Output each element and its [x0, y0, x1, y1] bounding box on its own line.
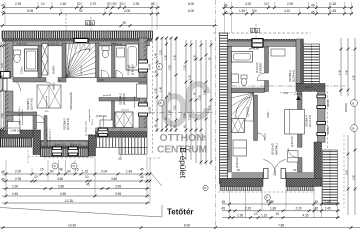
- overall top dim line: [0, 25, 218, 27]
- svg-text:2.90: 2.90: [12, 184, 18, 188]
- double door leaves B: [264, 169, 269, 179]
- window A bottom 2: [68, 144, 78, 157]
- svg-text:R: R: [73, 164, 75, 168]
- svg-text:1.95: 1.95: [203, 135, 206, 140]
- svg-text:90: 90: [123, 21, 127, 25]
- svg-text:(5.04 m2): (5.04 m2): [256, 62, 259, 73]
- sink B: [232, 74, 239, 83]
- R circles below A doors: [52, 163, 58, 169]
- svg-text:3.10: 3.10: [173, 105, 176, 110]
- toilet B: [241, 75, 247, 79]
- section mark 8|8 over B: [251, 24, 260, 39]
- svg-text:6.00: 6.00: [188, 9, 194, 13]
- svg-text:OTTHON: OTTHON: [160, 133, 204, 144]
- svg-text:1.48: 1.48: [159, 87, 162, 92]
- dashed lines below B: [218, 191, 315, 193]
- dim line B row2: [222, 13, 353, 15]
- svg-text:8: 8: [251, 29, 253, 33]
- svg-text:2.03 m: 2.03 m: [21, 66, 24, 74]
- svg-text:1.45: 1.45: [325, 200, 331, 204]
- mid-right vertical wall A: [89, 135, 96, 156]
- dashed overhang right of wing: [327, 91, 329, 149]
- svg-text:10: 10: [41, 2, 45, 6]
- bottom-mid wall A: [41, 141, 89, 149]
- svg-text:-11.35-: -11.35-: [64, 199, 74, 203]
- svg-text:SZOBA 3: SZOBA 3: [288, 70, 292, 82]
- svg-text:(12.84 m2): (12.84 m2): [293, 70, 296, 82]
- stairs bottom right B: [323, 150, 338, 205]
- svg-text:2.35: 2.35: [133, 2, 139, 6]
- svg-text:Tetőtér: Tetőtér: [167, 208, 194, 217]
- corner dashes bottom-left A: [27, 150, 29, 163]
- door arc A szoba1: [37, 115, 45, 123]
- svg-text:5.05: 5.05: [27, 9, 33, 13]
- bed A szoba2: [137, 84, 148, 98]
- svg-text:1.50: 1.50: [239, 9, 245, 13]
- leader diagonal bottom-right of A rows: [150, 172, 162, 186]
- svg-text:2.04: 2.04: [101, 170, 107, 174]
- svg-text:melegburkolat: melegburkolat: [88, 109, 91, 122]
- top wall B gray: [228, 42, 297, 46]
- svg-text:SZOBA 2: SZOBA 2: [119, 93, 123, 105]
- svg-text:3.80: 3.80: [58, 184, 64, 188]
- svg-text:90: 90: [67, 170, 71, 174]
- svg-text:180/150: 180/150: [345, 102, 348, 112]
- cabinet B: [288, 151, 299, 163]
- svg-text:(11.16 m2): (11.16 m2): [123, 93, 126, 105]
- svg-text:45: 45: [1, 177, 5, 181]
- svg-text:45: 45: [86, 183, 90, 187]
- ridge dash-dot B: [232, 85, 345, 87]
- svg-text:45: 45: [1, 11, 5, 15]
- svg-text:B: B: [158, 65, 160, 69]
- dashed line right of A: [152, 33, 154, 153]
- stairs A flight2: [119, 148, 147, 155]
- svg-text:SZOBA 4: SZOBA 4: [305, 115, 309, 127]
- step wall A: [33, 130, 41, 155]
- door arc A fürdő: [116, 71, 123, 78]
- window A right 1: [138, 60, 147, 63]
- svg-text:10: 10: [264, 2, 268, 6]
- wardrobe A bottom-left room: [8, 122, 21, 135]
- bath fixtures A top-left: shower: [25, 49, 38, 71]
- svg-text:5.35: 5.35: [198, 95, 201, 100]
- svg-text:3.30: 3.30: [183, 65, 186, 70]
- sink A fürdő: [117, 48, 125, 57]
- wardrobe B bottom-left: [233, 140, 247, 156]
- bottom-left wall A: [0, 130, 34, 138]
- svg-text:8: 8: [91, 21, 93, 25]
- top wall A gray: [5, 42, 150, 46]
- shaft X chimney A: [42, 44, 49, 76]
- svg-text:(16.95 m2): (16.95 m2): [272, 143, 275, 155]
- svg-text:45: 45: [222, 200, 226, 204]
- svg-text:B: B: [352, 126, 354, 130]
- svg-text:R: R: [54, 164, 56, 168]
- wardrobe B top-right room: [271, 49, 285, 56]
- chimney A: [74, 38, 88, 46]
- tub B: [232, 52, 253, 63]
- svg-text:10: 10: [34, 175, 38, 179]
- door arc A gard: [46, 82, 54, 90]
- svg-text:R: R: [204, 186, 206, 190]
- circle marker left of B: [203, 185, 208, 190]
- svg-text:(1.88 m2): (1.88 m2): [11, 130, 22, 133]
- interior walls A: [5, 43, 147, 146]
- svg-text:3.80: 3.80: [111, 177, 117, 181]
- svg-text:3.60: 3.60: [1, 113, 4, 118]
- svg-text:(1.44m2): (1.44m2): [112, 43, 122, 46]
- dim line B row1: [222, 7, 353, 9]
- svg-text:2.18: 2.18: [188, 115, 191, 120]
- svg-text:2.00: 2.00: [283, 92, 288, 95]
- svg-text:hidegburkolat: hidegburkolat: [45, 96, 48, 108]
- section mark 8|8 over A: [86, 17, 95, 30]
- left wall ladder B: [220, 33, 228, 184]
- toilet A wc room: [102, 46, 109, 51]
- extra tiny texts A corridor: [45, 66, 130, 135]
- svg-text:1.90: 1.90: [154, 88, 157, 93]
- svg-text:(1.88 m2): (1.88 m2): [16, 42, 27, 45]
- svg-text:3.95: 3.95: [115, 192, 121, 196]
- bottom wall B gray: [232, 172, 315, 178]
- toilet A top-left: [14, 50, 21, 55]
- door mark 2.00 dashes B: [280, 91, 298, 93]
- left wall A: [5, 41, 13, 77]
- svg-text:+15,32: +15,32: [294, 93, 302, 96]
- frame fold lines: [0, 205, 162, 217]
- eaves band A: [2, 31, 153, 39]
- svg-text:90: 90: [113, 2, 117, 6]
- svg-text:1.80: 1.80: [270, 207, 276, 211]
- svg-text:1.46: 1.46: [126, 170, 132, 174]
- svg-text:2.20: 2.20: [245, 207, 251, 211]
- svg-text:1.40: 1.40: [154, 53, 157, 58]
- eaves band below bottom-mid wall A: [41, 148, 89, 157]
- left wall gray B: [228, 46, 232, 172]
- svg-text:vak.comfort 4.37 m: vak.comfort 4.37 m: [49, 128, 52, 145]
- svg-text:1.45: 1.45: [330, 2, 336, 6]
- svg-text:pm=1.90: pm=1.90: [57, 144, 66, 146]
- svg-text:2.45: 2.45: [12, 192, 18, 196]
- svg-text:45: 45: [151, 2, 155, 6]
- svg-text:(3.08 m2): (3.08 m2): [96, 115, 107, 118]
- eaves band below bottom-left wall A: [0, 138, 32, 147]
- svg-text:KÖZLEKEDŐ: KÖZLEKEDŐ: [68, 92, 73, 110]
- watermark C: [189, 84, 207, 117]
- svg-text:10: 10: [77, 2, 81, 6]
- numbers top-left: [1, 2, 155, 25]
- window A bottom 1: [52, 144, 62, 157]
- parapet tick band below B wall right: [286, 187, 314, 191]
- svg-text:4.10: 4.10: [284, 9, 290, 13]
- svg-text:10.30: 10.30: [68, 223, 76, 227]
- svg-text:45: 45: [140, 175, 144, 179]
- svg-text:1.45: 1.45: [173, 55, 176, 60]
- svg-text:2.35: 2.35: [15, 177, 21, 181]
- window in A bottom-right wall: [98, 128, 108, 137]
- svg-text:1.15: 1.15: [82, 170, 88, 174]
- svg-text:(7.30 m2): (7.30 m2): [228, 149, 231, 160]
- wing top wall B: [296, 84, 325, 92]
- bed X szoba1 A: [37, 85, 61, 108]
- svg-text:3.60: 3.60: [57, 177, 63, 181]
- svg-text:10: 10: [120, 2, 124, 6]
- svg-text:90: 90: [79, 9, 83, 13]
- bottom wall B speckle: [220, 178, 322, 186]
- svg-text:15: 15: [40, 167, 44, 171]
- shaft X A bottom right: [115, 112, 133, 128]
- door arc A wc: [102, 70, 110, 78]
- svg-text:1.45: 1.45: [325, 207, 331, 211]
- svg-text:45: 45: [222, 207, 226, 211]
- axis dash line at x66: [65, 14, 67, 31]
- svg-text:3.20: 3.20: [245, 2, 251, 6]
- svg-text:45: 45: [140, 167, 144, 171]
- svg-text:48: 48: [59, 167, 63, 171]
- watermark O: [165, 96, 183, 124]
- svg-text:LÉPCSŐ: LÉPCSŐ: [247, 107, 250, 117]
- svg-text:2.53 m: 2.53 m: [92, 119, 94, 125]
- svg-text:melegburkolat 3.95 m: melegburkolat 3.95 m: [18, 106, 21, 125]
- svg-text:1.50: 1.50: [188, 75, 191, 80]
- svg-text:1.95: 1.95: [237, 213, 243, 217]
- ridge dash-dot between buildings: [150, 112, 214, 114]
- svg-text:4.20: 4.20: [269, 201, 274, 204]
- svg-text:2.18: 2.18: [159, 50, 162, 55]
- wing right wall B: [318, 91, 326, 142]
- shaft X B: [232, 119, 245, 133]
- svg-text:hidegburkolat: hidegburkolat: [102, 115, 105, 127]
- dim line A row2: [3, 13, 160, 15]
- svg-text:90/150: 90/150: [149, 106, 152, 114]
- svg-text:2.35: 2.35: [15, 2, 21, 6]
- wing windows B: [317, 95, 326, 98]
- svg-text:2.00: 2.00: [15, 170, 21, 174]
- svg-text:16x17.6/29: 16x17.6/29: [81, 66, 83, 75]
- svg-text:10: 10: [107, 2, 111, 6]
- svg-text:1.45: 1.45: [330, 9, 336, 13]
- svg-text:2.90: 2.90: [164, 55, 167, 60]
- svg-text:3.95: 3.95: [115, 184, 121, 188]
- svg-text:KÖZL.: KÖZL.: [267, 110, 270, 118]
- svg-text:pm=0.88: pm=0.88: [249, 47, 259, 50]
- chimney B: [252, 39, 263, 48]
- svg-text:90: 90: [50, 170, 54, 174]
- svg-text:7.65: 7.65: [278, 223, 284, 227]
- top wall A speckle: [2, 39, 153, 42]
- svg-text:10: 10: [85, 175, 89, 179]
- stairs A flight1: [96, 138, 148, 148]
- interior walls B: [232, 47, 303, 172]
- svg-text:6.00: 6.00: [188, 2, 194, 6]
- svg-text:2.40: 2.40: [345, 70, 348, 75]
- svg-text:1.50: 1.50: [193, 55, 196, 60]
- numbers top-right: [188, 2, 336, 14]
- window A right 2: [138, 103, 147, 106]
- svg-text:8: 8: [86, 21, 88, 25]
- dashed line below A mid wall: [44, 157, 95, 159]
- svg-text:2.00: 2.00: [99, 79, 104, 82]
- svg-text:45: 45: [311, 11, 315, 15]
- svg-text:pm=1.90: pm=1.90: [73, 144, 82, 146]
- svg-text:B: B: [160, 101, 162, 105]
- svg-text:3.05: 3.05: [1, 63, 4, 68]
- winder stair A: [66, 44, 96, 78]
- svg-text:10: 10: [276, 212, 280, 216]
- room texts A: [11, 42, 123, 145]
- svg-text:vak.comfort 2.35 m: vak.comfort 2.35 m: [21, 108, 24, 125]
- dashed roofline above B: [214, 32, 312, 34]
- svg-text:SZOBA 1: SZOBA 1: [26, 98, 30, 110]
- svg-text:(4.60 m2): (4.60 m2): [132, 64, 135, 75]
- svg-text:R: R: [266, 196, 268, 200]
- svg-text:(13.47 m2): (13.47 m2): [31, 98, 34, 110]
- svg-text:45: 45: [315, 207, 319, 211]
- svg-text:2.65: 2.65: [203, 90, 206, 95]
- bottom-right wall A: [96, 128, 148, 137]
- circle markers right of wing: [351, 100, 358, 107]
- svg-text:NAPPALI: NAPPALI: [275, 143, 279, 155]
- svg-text:45: 45: [1, 4, 5, 8]
- svg-text:(10.94 m2): (10.94 m2): [67, 118, 70, 130]
- circle markers right of A: [157, 64, 163, 70]
- svg-text:melegburkolat 2.53 m: melegburkolat 2.53 m: [46, 126, 49, 145]
- bed B szoba4: [285, 110, 305, 135]
- door arc B bath: [257, 73, 265, 81]
- svg-text:1.90: 1.90: [168, 110, 171, 115]
- door arc B szoba4: [288, 148, 298, 158]
- ticks row1 A: [1, 6, 353, 27]
- door opening B bottom: [263, 171, 286, 187]
- svg-text:2.20: 2.20: [296, 207, 302, 211]
- svg-text:10: 10: [254, 212, 258, 216]
- stairs right of B: [304, 44, 320, 88]
- svg-text:2.90: 2.90: [183, 113, 186, 118]
- svg-text:60/90: 60/90: [149, 63, 152, 70]
- svg-text:1.80: 1.80: [352, 175, 355, 180]
- svg-text:4.50: 4.50: [60, 192, 66, 196]
- right wall A: [139, 38, 147, 60]
- winder stair B: [232, 93, 254, 122]
- door arc B nappali: [258, 133, 266, 141]
- svg-text:melegburkolat: melegburkolat: [85, 121, 88, 133]
- svg-text:B: B: [352, 101, 354, 105]
- svg-text:Lm=1.90: Lm=1.90: [121, 110, 130, 112]
- tub A fürdő: [126, 44, 139, 70]
- top wall B speckle: [228, 39, 304, 42]
- svg-text:melegburkolat: melegburkolat: [133, 96, 136, 108]
- svg-text:1.15: 1.15: [261, 213, 267, 217]
- svg-text:8: 8: [256, 29, 258, 33]
- svg-text:4.05: 4.05: [124, 9, 130, 13]
- svg-text:45: 45: [315, 200, 319, 204]
- svg-text:GARD.: GARD.: [52, 65, 56, 74]
- svg-text:5.30: 5.30: [352, 75, 355, 80]
- parapet tick band below B wall left: [220, 187, 262, 191]
- svg-text:1.60: 1.60: [60, 2, 66, 6]
- wing lower wall B: [314, 142, 322, 186]
- door arc left wall A: [3, 79, 8, 92]
- wardrobe A szoba2: [100, 120, 113, 128]
- svg-text:(2.08 m2): (2.08 m2): [236, 157, 239, 168]
- svg-text:2.00: 2.00: [345, 170, 348, 175]
- svg-text:(1.28 m2): (1.28 m2): [48, 42, 59, 45]
- svg-text:(10.47 m2): (10.47 m2): [309, 115, 312, 127]
- svg-text:9.35: 9.35: [208, 105, 211, 110]
- svg-text:1.45: 1.45: [338, 70, 341, 75]
- svg-text:SZOBA 3: SZOBA 3: [63, 118, 67, 130]
- svg-text:pm=0.88: pm=0.88: [103, 95, 112, 97]
- svg-text:6.00: 6.00: [184, 223, 190, 227]
- svg-text:40: 40: [253, 9, 257, 13]
- dim line A row1: [3, 7, 160, 9]
- R circle below B door: [265, 195, 271, 201]
- room texts B: [237, 47, 314, 172]
- extension verticals: [6, 156, 150, 203]
- svg-text:45: 45: [1, 170, 5, 174]
- right wall B upper: [296, 39, 304, 84]
- +15.32 marker B: [296, 96, 301, 100]
- window box left wall A: [1, 72, 11, 79]
- svg-text:FÜRDŐ: FÜRDŐ: [126, 64, 131, 75]
- svg-text:2.90: 2.90: [287, 2, 293, 6]
- svg-text:pm=1.90: pm=1.90: [85, 135, 94, 137]
- svg-text:B-épület: B-épület: [178, 148, 187, 179]
- svg-text:2.70: 2.70: [90, 2, 96, 6]
- svg-text:4.35: 4.35: [303, 213, 309, 217]
- svg-text:(2.24 m2): (2.24 m2): [291, 136, 294, 147]
- svg-text:pm=1.90: pm=1.90: [305, 87, 314, 89]
- svg-text:45: 45: [311, 4, 315, 8]
- svg-text:3.20: 3.20: [168, 65, 171, 70]
